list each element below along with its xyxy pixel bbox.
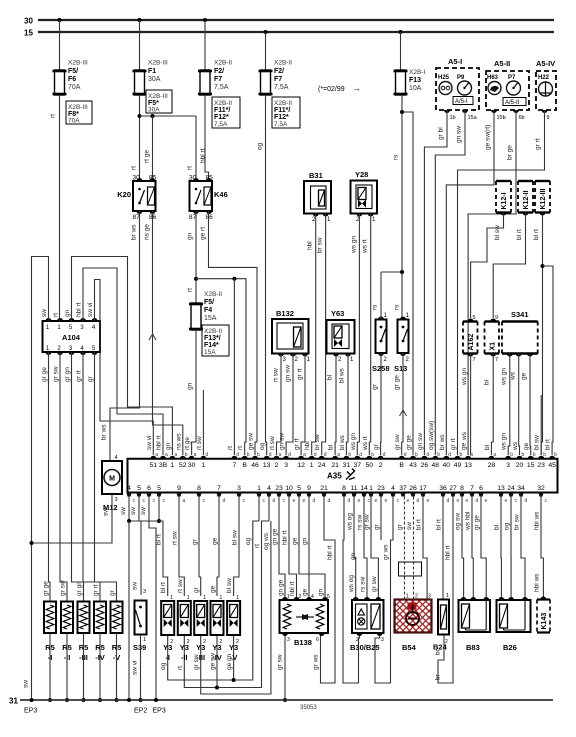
svg-text:37: 37 [399, 485, 407, 492]
svg-text:35053: 35053 [300, 705, 317, 711]
svg-text:bl rt: bl rt [516, 229, 523, 240]
svg-text:-IV: -IV [212, 653, 222, 662]
svg-text:B30/B25: B30/B25 [350, 643, 380, 652]
svg-text:bl rt: bl rt [416, 519, 423, 530]
svg-text:rt: rt [187, 166, 194, 170]
svg-text:hbl rt: hbl rt [289, 581, 296, 596]
svg-text:7: 7 [470, 485, 474, 492]
svg-text:M: M [109, 476, 115, 483]
svg-text:gn ge: gn ge [272, 528, 279, 545]
svg-text:B26: B26 [503, 643, 517, 652]
svg-text:b: b [533, 452, 536, 458]
svg-text:A/5-I: A/5-I [455, 99, 468, 105]
svg-text:1: 1 [143, 637, 146, 643]
svg-text:ws: ws [512, 441, 519, 451]
svg-text:gr rt: gr rt [450, 438, 457, 450]
svg-text:9: 9 [495, 315, 498, 321]
svg-text:ws: ws [461, 431, 468, 441]
svg-text:7: 7 [473, 357, 476, 363]
svg-text:gr rt: gr rt [93, 584, 100, 596]
svg-text:gr: gr [192, 538, 199, 545]
svg-text:og: og [245, 537, 252, 545]
svg-text:X2B-II: X2B-II [214, 60, 232, 67]
svg-text:30: 30 [133, 175, 141, 182]
svg-text:gr rt: gr rt [535, 138, 542, 150]
svg-text:B83: B83 [466, 643, 480, 652]
svg-text:X2B-III: X2B-III [148, 60, 168, 67]
svg-text:70A: 70A [68, 118, 80, 125]
svg-text:1b: 1b [450, 115, 456, 121]
svg-text:13: 13 [497, 485, 505, 492]
svg-text:rt sw: rt sw [177, 579, 184, 593]
svg-text:85: 85 [206, 175, 214, 182]
svg-text:gn ge: gn ge [278, 579, 285, 596]
svg-text:K12-III: K12-III [540, 188, 547, 209]
svg-text:bl sw: bl sw [534, 435, 541, 450]
svg-text:3: 3 [381, 637, 384, 643]
svg-text:gr sw: gr sw [371, 576, 378, 592]
svg-text:23: 23 [377, 485, 385, 492]
svg-text:15a: 15a [468, 115, 478, 121]
svg-text:-I: -I [165, 653, 170, 662]
svg-text:ns ge: ns ge [144, 224, 151, 240]
svg-text:B: B [242, 462, 247, 469]
svg-text:40: 40 [443, 462, 451, 469]
svg-text:X2B-II: X2B-II [214, 100, 232, 107]
svg-text:rt sw: rt sw [269, 436, 276, 450]
svg-text:ws rt: ws rt [362, 239, 369, 254]
svg-text:9: 9 [307, 485, 311, 492]
svg-text:1: 1 [406, 594, 409, 600]
svg-text:43: 43 [409, 462, 417, 469]
svg-text:15b: 15b [497, 115, 506, 121]
svg-text:og sw: og sw [455, 513, 462, 530]
svg-text:rt sw: rt sw [196, 436, 203, 450]
svg-text:gr: gr [87, 375, 94, 382]
svg-text:46: 46 [251, 462, 259, 469]
svg-text:5: 5 [327, 594, 330, 600]
svg-text:3: 3 [237, 485, 241, 492]
svg-text:gr rt: gr rt [297, 368, 304, 380]
svg-text:F11*/: F11*/ [274, 107, 290, 114]
svg-text:d: d [383, 452, 386, 458]
svg-text:7: 7 [495, 357, 498, 363]
svg-text:ge: ge [210, 585, 217, 593]
svg-text:-III: -III [196, 653, 205, 662]
svg-text:8: 8 [460, 485, 464, 492]
svg-text:6: 6 [147, 485, 151, 492]
svg-text:S39: S39 [133, 643, 146, 652]
svg-text:F7: F7 [274, 76, 282, 83]
svg-text:EP2: EP2 [134, 708, 147, 715]
svg-text:hbl: hbl [307, 241, 314, 250]
svg-text:Y3: Y3 [180, 643, 189, 652]
svg-text:d: d [476, 498, 479, 504]
svg-text:F5/: F5/ [68, 68, 78, 75]
svg-text:ws og: ws og [348, 575, 355, 593]
svg-text:e: e [375, 498, 378, 504]
svg-text:ge: ge [523, 442, 530, 450]
svg-text:gn: gn [318, 588, 325, 596]
svg-text:EP3: EP3 [24, 708, 37, 715]
svg-text:a: a [279, 452, 282, 458]
svg-text:ge: ge [521, 372, 528, 380]
svg-text:ws gn: ws gn [461, 368, 468, 386]
svg-text:bl sw: bl sw [494, 225, 501, 240]
svg-text:6b: 6b [519, 115, 525, 121]
svg-text:P7: P7 [508, 75, 516, 81]
svg-text:23: 23 [537, 462, 545, 469]
svg-text:Y3: Y3 [163, 643, 172, 652]
svg-text:ge rt: ge rt [200, 227, 207, 240]
svg-text:A104: A104 [62, 333, 81, 342]
svg-text:rt: rt [187, 288, 194, 292]
svg-text:X2B-II: X2B-II [204, 291, 222, 298]
svg-text:b: b [247, 452, 250, 458]
svg-text:gr ws: gr ws [313, 654, 320, 670]
svg-text:X2B-I: X2B-I [409, 69, 425, 76]
svg-text:d: d [273, 498, 276, 504]
svg-text:og: og [160, 662, 167, 670]
svg-text:A162: A162 [468, 334, 475, 351]
svg-text:d: d [417, 498, 420, 504]
svg-text:bl: bl [494, 524, 501, 530]
svg-text:3: 3 [143, 589, 146, 595]
svg-text:1: 1 [287, 594, 290, 600]
svg-text:ws gn: ws gn [350, 433, 357, 451]
svg-text:d: d [314, 452, 317, 458]
svg-text:7,5A: 7,5A [214, 84, 229, 91]
svg-text:K12-I: K12-I [501, 192, 508, 209]
svg-text:B31: B31 [309, 171, 323, 180]
svg-text:F11*/: F11*/ [214, 107, 230, 114]
svg-text:34: 34 [517, 485, 525, 492]
svg-text:2: 2 [379, 462, 383, 469]
svg-text:hbl rt: hbl rt [282, 530, 289, 545]
svg-text:P9: P9 [457, 75, 465, 81]
svg-text:b: b [522, 452, 525, 458]
svg-text:7: 7 [233, 462, 237, 469]
svg-text:d: d [288, 452, 291, 458]
svg-text:15A: 15A [204, 315, 217, 322]
svg-text:rs sw: rs sw [360, 577, 367, 592]
svg-text:hbl rt: hbl rt [327, 545, 334, 560]
svg-text:30: 30 [188, 462, 196, 469]
svg-text:b: b [554, 452, 557, 458]
svg-text:b: b [460, 452, 463, 458]
svg-text:1: 1 [446, 593, 449, 599]
svg-text:7,5A: 7,5A [274, 121, 288, 128]
svg-text:ge: ge [212, 537, 219, 545]
svg-text:1: 1 [171, 462, 175, 469]
svg-text:d: d [404, 452, 407, 458]
svg-text:2: 2 [415, 594, 418, 600]
svg-text:e: e [303, 498, 306, 504]
svg-text:A/5-II: A/5-II [505, 100, 520, 106]
svg-text:gr sw: gr sw [394, 434, 401, 450]
svg-text:1: 1 [369, 485, 373, 492]
svg-text:36: 36 [439, 485, 447, 492]
svg-text:gr: gr [374, 523, 381, 530]
svg-text:b: b [437, 452, 440, 458]
svg-text:sw: sw [120, 507, 127, 515]
svg-text:B54: B54 [402, 643, 417, 652]
svg-text:86: 86 [206, 214, 214, 221]
svg-text:ge: ge [292, 537, 299, 545]
svg-text:gn: gn [64, 309, 71, 317]
svg-text:bl: bl [484, 379, 491, 385]
svg-text:sw: sw [406, 522, 413, 530]
svg-text:rt: rt [254, 544, 261, 548]
svg-text:20: 20 [516, 462, 524, 469]
svg-text:4: 4 [127, 485, 131, 492]
svg-text:br ws: br ws [131, 224, 138, 240]
svg-text:b: b [348, 452, 351, 458]
svg-text:gn: gn [165, 442, 172, 450]
svg-text:48: 48 [432, 462, 440, 469]
svg-text:e: e [385, 498, 388, 504]
svg-text:gn sw: gn sw [417, 433, 424, 450]
svg-text:4: 4 [311, 594, 314, 600]
svg-text:br sw: br sw [314, 434, 321, 450]
svg-text:26: 26 [409, 485, 417, 492]
svg-text:gr: gr [372, 383, 379, 390]
svg-text:ws gn: ws gn [501, 433, 508, 451]
svg-text:S13: S13 [394, 364, 407, 373]
svg-text:F6: F6 [68, 76, 76, 83]
svg-text:5: 5 [473, 315, 476, 321]
svg-text:31: 31 [343, 462, 351, 469]
svg-text:b: b [510, 452, 513, 458]
svg-text:H63: H63 [487, 75, 499, 81]
svg-text:og: og [259, 442, 266, 450]
svg-text:A5-I: A5-I [448, 57, 462, 66]
svg-text:gn: gn [350, 552, 357, 560]
svg-text:gn: gn [187, 382, 194, 390]
svg-text:ns ws: ns ws [175, 433, 182, 450]
svg-text:rt sw: rt sw [273, 368, 280, 382]
svg-text:gr sw: gr sw [277, 654, 284, 670]
svg-text:1: 1 [170, 595, 173, 601]
svg-text:9: 9 [547, 115, 550, 121]
svg-text:gr bl: gr bl [438, 127, 445, 140]
svg-text:5: 5 [137, 485, 141, 492]
svg-text:gr: gr [373, 443, 380, 450]
svg-text:X1: X1 [489, 342, 496, 351]
svg-text:rt: rt [50, 114, 57, 118]
svg-text:3B: 3B [159, 462, 168, 469]
svg-text:1: 1 [257, 485, 261, 492]
svg-text:Y63: Y63 [331, 309, 344, 318]
svg-text:37: 37 [354, 462, 362, 469]
svg-text:7,5A: 7,5A [274, 84, 289, 91]
svg-text:e: e [457, 498, 460, 504]
svg-text:d: d [328, 498, 331, 504]
svg-text:gn sw: gn sw [285, 365, 292, 382]
svg-text:d: d [359, 452, 362, 458]
svg-text:F12*: F12* [214, 114, 229, 121]
svg-text:8: 8 [342, 485, 346, 492]
svg-text:7,5A: 7,5A [214, 121, 228, 128]
svg-text:og: og [504, 522, 511, 530]
svg-text:a: a [165, 452, 168, 458]
svg-text:3: 3 [428, 594, 431, 600]
svg-text:hbl ws: hbl ws [534, 573, 541, 592]
svg-text:d: d [223, 498, 226, 504]
svg-text:e: e [427, 498, 430, 504]
svg-text:K143: K143 [541, 613, 548, 630]
svg-text:sw vi: sw vi [87, 303, 94, 317]
svg-text:d: d [324, 452, 327, 458]
svg-text:d: d [236, 452, 239, 458]
svg-text:bl: bl [327, 374, 334, 380]
svg-text:sw: sw [130, 507, 137, 515]
svg-text:A5-IV: A5-IV [536, 59, 555, 68]
svg-text:1: 1 [236, 595, 239, 601]
svg-text:31: 31 [9, 697, 18, 706]
svg-text:gr ge: gr ge [43, 581, 50, 596]
svg-text:Y28: Y28 [355, 170, 368, 179]
svg-text:bl sw: bl sw [232, 530, 239, 545]
svg-text:hbl ws: hbl ws [534, 511, 541, 530]
svg-text:gn sw: gn sw [456, 126, 463, 143]
svg-text:bl sw: bl sw [226, 578, 233, 593]
svg-text:b: b [371, 452, 374, 458]
svg-text:85: 85 [149, 175, 157, 182]
svg-text:24: 24 [318, 462, 326, 469]
svg-text:b: b [415, 452, 418, 458]
svg-text:A5-II: A5-II [494, 59, 510, 68]
svg-text:21: 21 [320, 485, 328, 492]
svg-text:bl ws: bl ws [339, 367, 346, 383]
svg-text:10: 10 [285, 485, 293, 492]
svg-text:H25: H25 [438, 75, 450, 81]
svg-text:ws gn: ws gn [501, 368, 508, 386]
svg-text:gr ws: gr ws [383, 544, 390, 560]
svg-text:26: 26 [421, 462, 429, 469]
svg-text:K20: K20 [117, 190, 131, 199]
svg-text:bl rt: bl rt [436, 519, 443, 530]
svg-text:45: 45 [548, 462, 556, 469]
svg-text:gn: gn [187, 232, 194, 240]
svg-text:50: 50 [366, 462, 374, 469]
svg-text:rt: rt [53, 313, 60, 317]
svg-text:gr sw: gr sw [60, 580, 67, 596]
svg-text:X2B-II: X2B-II [274, 60, 292, 67]
svg-text:gr: gr [109, 589, 116, 596]
svg-text:2: 2 [299, 594, 302, 600]
svg-text:28: 28 [488, 462, 496, 469]
svg-text:14: 14 [360, 485, 368, 492]
svg-text:1: 1 [203, 595, 206, 601]
svg-text:a: a [470, 452, 473, 458]
svg-text:d: d [205, 452, 208, 458]
svg-text:hbl rt: hbl rt [76, 302, 83, 317]
svg-text:b: b [185, 452, 188, 458]
svg-text:6: 6 [316, 637, 319, 643]
svg-text:11: 11 [350, 485, 357, 492]
svg-text:A35: A35 [327, 472, 342, 481]
svg-text:sw: sw [140, 507, 147, 515]
svg-text:X2B-III: X2B-III [68, 60, 88, 67]
svg-text:gr ge: gr ge [474, 515, 481, 530]
svg-text:ge: ge [302, 588, 309, 596]
svg-text:bl: bl [484, 444, 491, 450]
svg-text:e: e [407, 498, 410, 504]
svg-text:rt: rt [177, 666, 184, 670]
svg-text:5: 5 [157, 485, 161, 492]
svg-text:F2/: F2/ [214, 68, 224, 75]
svg-text:gr: gr [397, 523, 404, 530]
svg-text:gr ge: gr ge [394, 375, 401, 390]
svg-text:a: a [183, 498, 186, 504]
svg-text:F2/: F2/ [274, 68, 284, 75]
svg-text:gr ge: gr ge [406, 435, 413, 450]
svg-text:a: a [174, 452, 177, 458]
svg-text:br sw: br sw [514, 514, 521, 530]
svg-text:og ws: og ws [263, 532, 270, 550]
svg-text:e: e [485, 498, 488, 504]
svg-text:13: 13 [464, 462, 472, 469]
svg-text:hbl rt: hbl rt [445, 545, 452, 560]
svg-text:gn sw: gn sw [279, 433, 286, 450]
svg-text:F7: F7 [214, 76, 222, 83]
svg-text:B: B [399, 462, 404, 469]
svg-text:br ws: br ws [101, 424, 108, 440]
svg-text:d: d [448, 452, 451, 458]
svg-text:F1: F1 [148, 68, 156, 75]
svg-text:bl rt: bl rt [533, 229, 540, 240]
svg-text:32: 32 [537, 485, 545, 492]
svg-text:hbl: hbl [304, 441, 311, 450]
svg-text:12: 12 [297, 462, 305, 469]
svg-text:1: 1 [310, 462, 314, 469]
svg-text:1: 1 [220, 595, 223, 601]
svg-text:2: 2 [275, 462, 279, 469]
svg-text:e: e [505, 498, 508, 504]
svg-text:bl rt: bl rt [160, 582, 167, 593]
svg-text:1: 1 [202, 462, 206, 469]
svg-text:ge sw: ge sw [248, 433, 255, 450]
svg-text:gr rt: gr rt [294, 438, 301, 450]
svg-text:H22: H22 [538, 75, 550, 81]
svg-text:21: 21 [331, 462, 339, 469]
svg-text:sw vi: sw vi [132, 661, 139, 675]
svg-text:70A: 70A [68, 84, 81, 91]
svg-text:sw: sw [41, 309, 48, 317]
svg-text:F13*/: F13*/ [204, 335, 221, 342]
svg-text:15: 15 [527, 462, 535, 469]
svg-text:49: 49 [454, 462, 462, 469]
svg-text:gr gn: gr gn [76, 581, 83, 596]
svg-text:27: 27 [449, 485, 457, 492]
svg-text:b: b [543, 452, 546, 458]
svg-text:F13: F13 [409, 77, 421, 84]
svg-text:bl: bl [328, 444, 335, 450]
svg-text:K46: K46 [214, 190, 228, 199]
svg-text:gr sw: gr sw [53, 366, 60, 382]
svg-text:30A: 30A [148, 76, 161, 83]
svg-text:gn: gn [302, 537, 309, 545]
svg-text:rs: rs [394, 304, 401, 310]
svg-text:Y3: Y3 [229, 643, 238, 652]
svg-text:13: 13 [263, 462, 271, 469]
svg-text:15A: 15A [204, 349, 216, 356]
svg-text:8: 8 [197, 485, 201, 492]
svg-text:52: 52 [179, 462, 187, 469]
svg-text:B138: B138 [294, 638, 312, 647]
svg-text:d: d [269, 452, 272, 458]
